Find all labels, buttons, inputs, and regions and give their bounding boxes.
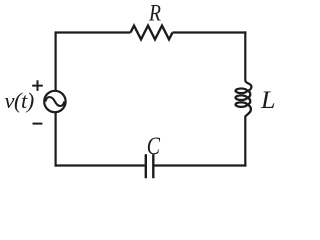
svg-text:v(t): v(t) <box>5 88 34 113</box>
wire left lower segment <box>54 112 56 166</box>
wire top-left segment <box>56 31 131 33</box>
wire bottom-left segment <box>55 164 145 166</box>
capacitor C left plate <box>145 154 147 178</box>
inductor L bottom tail connector <box>245 105 251 117</box>
wire left upper segment <box>54 31 56 90</box>
inductor L coil loop 1 <box>236 89 247 94</box>
plus sign <box>32 80 43 91</box>
inductor L coil loop 3 <box>236 102 247 107</box>
source sine wave <box>46 97 65 106</box>
svg-text:R: R <box>148 0 161 25</box>
minus sign <box>33 123 43 125</box>
inductor L top hook connector <box>245 81 251 91</box>
svg-text:L: L <box>260 87 276 114</box>
source v(t) circle <box>44 91 65 112</box>
inductor L inter-loop arc 2 <box>247 98 250 105</box>
wire right lower segment <box>244 116 246 167</box>
wire top-right segment <box>173 31 247 33</box>
wire right upper segment <box>244 31 246 81</box>
wire bottom-right segment <box>154 164 246 166</box>
inductor L coil loop 2 <box>236 95 247 100</box>
capacitor C right plate <box>152 154 154 178</box>
inductor L inter-loop arc 1 <box>247 91 250 98</box>
resistor R zigzag <box>131 26 173 40</box>
svg-text:C: C <box>147 131 161 160</box>
